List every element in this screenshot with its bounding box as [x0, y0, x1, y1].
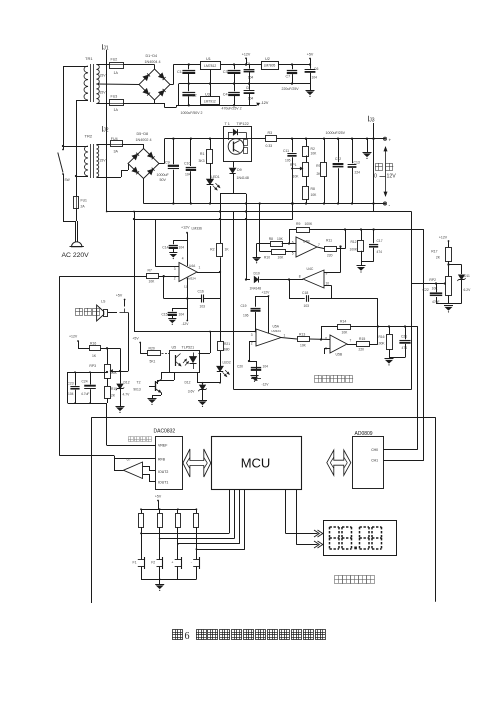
svg-text:104: 104 [263, 365, 269, 369]
svg-text:220: 220 [327, 254, 333, 258]
svg-text:6.2V: 6.2V [464, 288, 472, 292]
svg-text:10K: 10K [311, 193, 318, 197]
svg-text:DAC0832: DAC0832 [154, 429, 176, 435]
svg-text:CH1: CH1 [371, 459, 378, 463]
svg-text:104: 104 [68, 392, 74, 396]
svg-text:5K1: 5K1 [150, 360, 156, 364]
svg-text:1000uF: 1000uF [157, 173, 170, 177]
svg-text:R15: R15 [359, 337, 365, 341]
svg-text:2K: 2K [436, 256, 441, 260]
svg-text:12V: 12V [387, 174, 397, 180]
svg-text:C18: C18 [302, 291, 308, 295]
svg-text:+12V: +12V [242, 52, 251, 56]
svg-text:224: 224 [355, 171, 361, 175]
svg-text:VREF: VREF [158, 443, 167, 447]
svg-text:1A: 1A [114, 71, 119, 75]
svg-text:C7: C7 [286, 75, 291, 79]
svg-text:U3: U3 [205, 93, 210, 97]
svg-text:C24: C24 [82, 380, 88, 384]
svg-text:C16: C16 [198, 290, 204, 294]
svg-text:15V: 15V [99, 91, 106, 95]
svg-text:U5B: U5B [336, 353, 343, 357]
svg-text:15V: 15V [99, 74, 106, 78]
svg-text:3: 3 [174, 267, 176, 271]
svg-text:10K: 10K [293, 175, 300, 179]
svg-text:3.6V: 3.6V [188, 390, 196, 394]
svg-text:+5V: +5V [132, 337, 139, 341]
svg-text:100K: 100K [350, 248, 358, 252]
svg-text:+: + [171, 561, 173, 565]
svg-text:U1: U1 [206, 57, 211, 61]
svg-text:15V: 15V [99, 159, 106, 163]
svg-text:C3: C3 [223, 70, 228, 74]
svg-text:8: 8 [299, 275, 301, 279]
svg-text:11: 11 [184, 285, 187, 289]
svg-text:T 1: T 1 [225, 122, 230, 126]
svg-text:MCU: MCU [241, 456, 271, 471]
svg-text:4.7uF: 4.7uF [81, 392, 89, 396]
svg-text:R16: R16 [90, 341, 96, 345]
svg-text:9013: 9013 [133, 388, 141, 392]
svg-text:47uF: 47uF [432, 300, 440, 304]
svg-text:4.7V: 4.7V [123, 393, 131, 397]
svg-text:2A: 2A [81, 205, 86, 209]
svg-text:R17: R17 [431, 250, 437, 254]
svg-text:C13: C13 [354, 161, 360, 165]
svg-text:D12: D12 [124, 381, 130, 385]
svg-text:104: 104 [179, 313, 185, 317]
svg-text:3A: 3A [114, 150, 119, 154]
svg-text:LED1: LED1 [211, 175, 220, 179]
svg-text:10K: 10K [277, 237, 284, 241]
svg-text:C4: C4 [223, 93, 228, 97]
svg-text:C15: C15 [161, 313, 167, 317]
svg-text:U2: U2 [265, 57, 270, 61]
svg-text:IOUT1: IOUT1 [158, 480, 168, 484]
svg-text:R8: R8 [311, 187, 315, 191]
svg-text:D12: D12 [184, 381, 190, 385]
svg-text:1N4148: 1N4148 [250, 287, 262, 291]
svg-text:C21: C21 [401, 335, 407, 339]
svg-text:R2: R2 [210, 248, 214, 252]
svg-text:-12V: -12V [261, 101, 269, 105]
svg-text:LED2: LED2 [223, 361, 231, 365]
svg-text:0: 0 [374, 174, 377, 180]
svg-text:J1: J1 [103, 46, 109, 52]
svg-text:+12V: +12V [181, 226, 190, 230]
svg-text:J2: J2 [103, 128, 109, 134]
svg-text:TLP521: TLP521 [182, 346, 195, 350]
svg-text:R20: R20 [149, 346, 155, 350]
svg-text:-: - [191, 561, 192, 565]
svg-text:10K: 10K [432, 287, 439, 291]
svg-text:C1: C1 [177, 70, 182, 74]
svg-text:D1~D4: D1~D4 [146, 54, 158, 58]
svg-text:104: 104 [179, 246, 185, 250]
svg-text:T2: T2 [137, 381, 141, 385]
svg-text:1K: 1K [92, 354, 97, 358]
svg-text:2: 2 [251, 342, 253, 346]
svg-text:+: + [389, 137, 392, 142]
svg-text:D9: D9 [237, 168, 242, 172]
svg-text:FU1: FU1 [81, 199, 88, 203]
svg-text:0.33: 0.33 [266, 144, 273, 148]
svg-text:LM336: LM336 [192, 227, 202, 231]
svg-text:104: 104 [248, 75, 254, 79]
svg-text:F2: F2 [151, 561, 155, 565]
svg-text:LM7912: LM7912 [204, 99, 216, 103]
svg-text:6: 6 [292, 241, 294, 245]
svg-text:R7: R7 [148, 268, 152, 272]
svg-text:U7: U7 [127, 458, 131, 462]
svg-text:SW: SW [65, 178, 70, 182]
svg-text:C20: C20 [237, 365, 243, 369]
svg-text:U4A: U4A [189, 264, 196, 268]
svg-text:+5V: +5V [116, 294, 123, 298]
svg-text:D5~D8: D5~D8 [137, 132, 149, 136]
svg-text:3: 3 [251, 333, 253, 337]
svg-text:+5V: +5V [307, 53, 314, 57]
svg-text:105: 105 [285, 159, 291, 163]
svg-text:1A: 1A [114, 108, 119, 112]
svg-text:10: 10 [326, 282, 330, 286]
svg-text:LM7805: LM7805 [264, 64, 276, 68]
svg-text:TR2: TR2 [85, 134, 93, 139]
svg-text:5: 5 [292, 252, 294, 256]
svg-text:106: 106 [243, 314, 249, 318]
svg-text:-12V: -12V [262, 383, 270, 387]
svg-text:R8: R8 [269, 237, 273, 241]
svg-text:RP3: RP3 [89, 364, 96, 368]
svg-text:C19: C19 [240, 304, 246, 308]
svg-text:1: 1 [199, 266, 201, 270]
svg-text:C17: C17 [377, 239, 383, 243]
svg-text:R13: R13 [299, 333, 305, 337]
svg-text:470uF/25V 2: 470uF/25V 2 [222, 106, 242, 110]
svg-text:RP2: RP2 [429, 278, 436, 282]
svg-text:U5: U5 [172, 346, 177, 350]
svg-text:CH0: CH0 [371, 448, 378, 452]
svg-text:R1: R1 [200, 152, 205, 156]
svg-text:220uF/25V: 220uF/25V [282, 87, 300, 91]
svg-text:C10: C10 [184, 162, 190, 166]
svg-text:C12: C12 [335, 157, 341, 161]
svg-text:474: 474 [377, 250, 383, 254]
svg-text:FU3: FU3 [111, 95, 118, 99]
svg-text:+5V: +5V [155, 494, 162, 498]
svg-text:1K: 1K [225, 248, 230, 252]
svg-text:D10: D10 [254, 272, 260, 276]
svg-text:U4B: U4B [303, 240, 310, 244]
svg-text:7: 7 [350, 339, 352, 343]
svg-text:C11: C11 [283, 149, 289, 153]
svg-text:474: 474 [402, 346, 408, 350]
svg-text:R12: R12 [350, 240, 356, 244]
svg-text:R19: R19 [111, 387, 117, 391]
svg-text:R9: R9 [316, 164, 320, 168]
svg-text:R14: R14 [340, 320, 346, 324]
svg-text:1000uF/25V: 1000uF/25V [326, 131, 346, 135]
svg-text:1000uF/50V 2: 1000uF/50V 2 [181, 111, 203, 115]
svg-text:C6: C6 [314, 67, 318, 71]
svg-text:RP1: RP1 [290, 163, 297, 167]
svg-text:C22: C22 [423, 288, 429, 292]
svg-text:680: 680 [224, 348, 230, 352]
svg-text:C8: C8 [246, 86, 250, 90]
svg-text:100K: 100K [377, 342, 385, 346]
svg-text:1: 1 [284, 334, 286, 338]
svg-text:C23: C23 [68, 382, 74, 386]
svg-text:TIP122: TIP122 [237, 122, 249, 126]
svg-text:U4C: U4C [307, 267, 314, 271]
svg-text:+12V: +12V [262, 291, 271, 295]
svg-text:R11: R11 [326, 239, 332, 243]
svg-text:104: 104 [312, 75, 318, 79]
svg-text:LM7812: LM7812 [204, 64, 216, 68]
svg-text:LM324: LM324 [272, 329, 282, 333]
svg-text:R2: R2 [311, 147, 315, 151]
svg-text:R9: R9 [296, 222, 300, 226]
svg-text:104: 104 [185, 172, 191, 176]
svg-text:3K3: 3K3 [198, 159, 204, 163]
svg-text:R3: R3 [268, 131, 273, 135]
svg-text:R21: R21 [224, 342, 230, 346]
svg-text:R16: R16 [378, 335, 384, 339]
svg-text:10K: 10K [149, 280, 156, 284]
svg-text:1N4002 4: 1N4002 4 [136, 138, 152, 142]
svg-text:10K: 10K [342, 331, 349, 335]
svg-text:104: 104 [248, 97, 254, 101]
svg-text:100K: 100K [305, 222, 314, 226]
svg-text:C2: C2 [192, 93, 197, 97]
svg-text:+12V: +12V [69, 335, 78, 339]
svg-text:4: 4 [182, 257, 184, 261]
svg-text:50V: 50V [160, 178, 167, 182]
svg-text:FU2: FU2 [111, 58, 118, 62]
svg-text:AD0809: AD0809 [355, 431, 373, 437]
svg-text:R10: R10 [264, 256, 270, 260]
svg-text:LS: LS [101, 300, 106, 304]
svg-text:1N4004 4: 1N4004 4 [145, 60, 161, 64]
svg-text:TR1: TR1 [85, 56, 93, 61]
svg-text:AC 220V: AC 220V [62, 252, 90, 259]
svg-text:C9: C9 [165, 161, 170, 165]
svg-text:J3: J3 [369, 117, 375, 123]
svg-text:6: 6 [185, 631, 190, 642]
svg-text:7: 7 [318, 243, 320, 247]
svg-text:10K: 10K [311, 152, 318, 156]
svg-text:+12V: +12V [439, 236, 448, 240]
svg-text:F1: F1 [133, 561, 137, 565]
svg-text:-12V: -12V [182, 322, 190, 326]
svg-text:103: 103 [200, 305, 206, 309]
svg-text:6: 6 [325, 337, 327, 341]
svg-text:220: 220 [359, 348, 365, 352]
svg-text:10K: 10K [300, 344, 307, 348]
svg-text:IOUT2: IOUT2 [158, 470, 168, 474]
svg-text:D11: D11 [464, 274, 470, 278]
svg-text:103: 103 [304, 304, 310, 308]
svg-text:RFB: RFB [158, 457, 166, 461]
svg-text:1N4148: 1N4148 [237, 176, 249, 180]
svg-text:C14: C14 [162, 246, 168, 250]
svg-text:10K: 10K [278, 256, 285, 260]
